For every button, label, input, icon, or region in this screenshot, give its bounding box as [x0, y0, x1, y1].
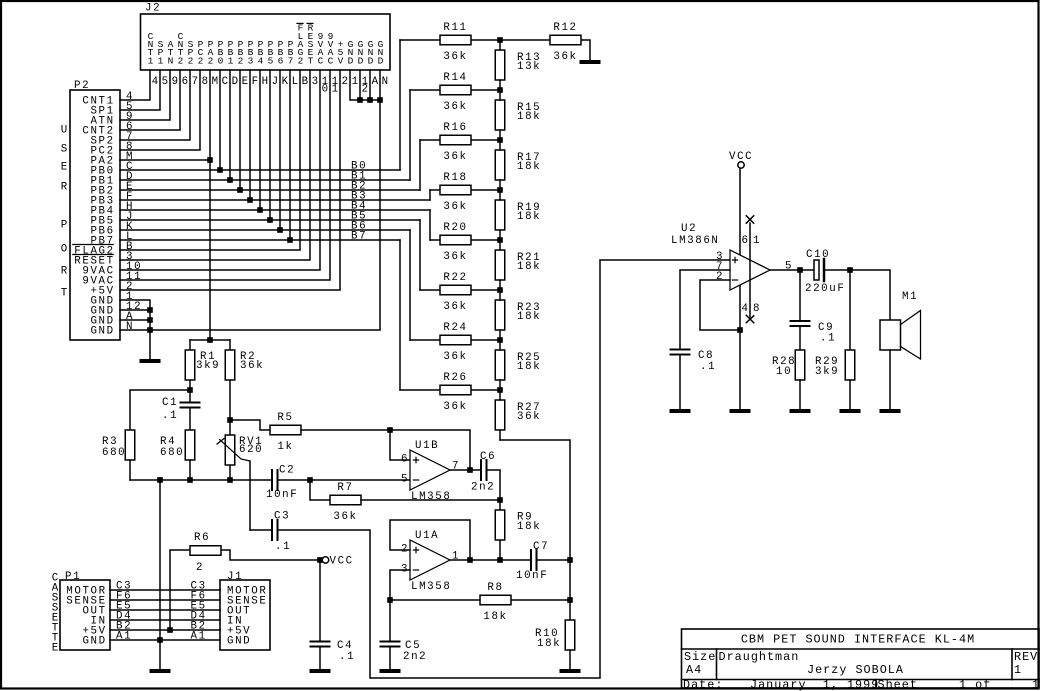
svg-text:36k: 36k [553, 51, 577, 63]
svg-text:GND: GND [227, 636, 251, 648]
svg-text:18k: 18k [517, 161, 541, 173]
svg-text:6: 6 [278, 55, 284, 66]
svg-text:E: E [52, 643, 60, 655]
junction dots ladder rail [497, 37, 503, 393]
svg-text:R: R [61, 182, 69, 194]
svg-text:36k: 36k [443, 251, 467, 263]
CASSETTE vertical label [52, 573, 60, 655]
junction dot (170,630) [167, 627, 173, 633]
resistor R13 13k [495, 50, 541, 80]
resistor R28 10 [772, 350, 805, 409]
svg-text:R20: R20 [443, 222, 467, 234]
svg-text:N: N [168, 55, 174, 66]
svg-text:CBM PET SOUND INTERFACE KL-4M: CBM PET SOUND INTERFACE KL-4M [741, 633, 975, 647]
resistor R5 1k [230, 412, 301, 453]
junction dot (160,640) [157, 637, 163, 643]
svg-text:1: 1 [332, 84, 340, 96]
svg-text:O: O [61, 244, 69, 256]
svg-text:M: M [212, 76, 220, 88]
svg-text:10: 10 [776, 366, 792, 378]
svg-text:A1: A1 [116, 631, 132, 643]
svg-text:1k: 1k [277, 441, 293, 453]
svg-text:0: 0 [218, 55, 224, 66]
wire U1A output row [450, 559, 570, 561]
svg-text:R16: R16 [443, 122, 467, 134]
svg-text:D: D [358, 55, 364, 66]
svg-text:REV: REV [1014, 650, 1038, 664]
svg-text:M1: M1 [902, 291, 918, 303]
svg-text:6: 6 [742, 235, 750, 247]
svg-text:3k9: 3k9 [815, 366, 839, 378]
svg-text:.1: .1 [162, 410, 178, 422]
svg-text:4: 4 [742, 303, 750, 315]
svg-text:36k: 36k [443, 301, 467, 313]
svg-text:3: 3 [248, 55, 254, 66]
svg-text:N: N [382, 76, 390, 88]
wire PA2 node to R1/R2 [190, 339, 230, 341]
svg-text:C3: C3 [274, 511, 290, 523]
junction dots J2/P2 [147, 97, 383, 333]
svg-text:R24: R24 [443, 322, 467, 334]
svg-text:36k: 36k [443, 201, 467, 213]
wire RV1 wiper down [249, 461, 251, 530]
wire analog ground row y=480 [130, 479, 410, 481]
wire R7 to R9 top [361, 499, 500, 501]
svg-text:S: S [61, 144, 69, 156]
connector J1 [220, 571, 270, 650]
power node VCC (OVCC) [317, 556, 354, 568]
svg-text:R14: R14 [443, 72, 467, 84]
junction dots y=480 row [157, 477, 313, 483]
svg-text:2: 2 [178, 55, 184, 66]
svg-text:Draughtman: Draughtman [719, 650, 800, 664]
resistor R10 18k [535, 620, 575, 669]
svg-text:R11: R11 [443, 22, 467, 34]
ground (M1) [880, 409, 901, 413]
svg-text:R5: R5 [277, 412, 293, 424]
wire DAC output to x=570 rail [500, 440, 570, 620]
svg-text:E: E [61, 162, 69, 174]
ground (R10) [560, 669, 581, 673]
resistor R6 2 [170, 532, 320, 630]
svg-text:7: 7 [288, 55, 294, 66]
capacitor C7 10nF [516, 541, 549, 582]
svg-text:2n2: 2n2 [403, 651, 427, 663]
resistor R16 36k [420, 122, 500, 163]
svg-text:10nF: 10nF [516, 570, 548, 582]
svg-text:6: 6 [401, 454, 409, 466]
resistor R19 18k [495, 200, 541, 230]
svg-text:B: B [302, 76, 310, 88]
ground (R29) [840, 409, 861, 413]
svg-text:C2: C2 [279, 465, 295, 477]
ground (P2 GND) [140, 359, 161, 363]
capacitor C3 .1 [250, 511, 291, 554]
wire U2 pin2 feedback [700, 280, 740, 330]
svg-text:18k: 18k [517, 361, 541, 373]
svg-text:5: 5 [401, 474, 409, 486]
svg-text:C10: C10 [806, 249, 830, 261]
svg-text:1: 1 [1014, 663, 1022, 677]
svg-text:2n2: 2n2 [471, 482, 495, 494]
svg-text:2: 2 [208, 55, 214, 66]
svg-text:9: 9 [172, 76, 180, 88]
capacitor C6 2n2 [471, 451, 496, 494]
potentiometer RV1 620 [217, 420, 263, 480]
svg-text:U2: U2 [681, 223, 697, 235]
resistor R7 36k [310, 480, 361, 523]
resistor R11 36k [400, 22, 500, 63]
wire R1 bottom to R3 [130, 390, 190, 430]
junction dot (740,330) [737, 327, 743, 333]
junction dots output [797, 267, 803, 273]
title block [682, 629, 1041, 691]
ground (C8) [670, 409, 691, 413]
svg-text:2: 2 [188, 55, 194, 66]
svg-text:10nF: 10nF [266, 489, 298, 501]
connector P2 (user port) [70, 80, 120, 340]
junction dot (230,420) [227, 417, 233, 423]
svg-text:D: D [378, 55, 384, 66]
svg-text:1: 1 [753, 235, 761, 247]
U2 pins 1/8 no-connect line with X marks [746, 216, 753, 323]
svg-text:C: C [328, 55, 334, 66]
svg-text:1: 1 [228, 55, 234, 66]
svg-text:18k: 18k [483, 611, 507, 623]
wire VCC to U2 pin6/4 [739, 168, 741, 330]
svg-text:18k: 18k [517, 211, 541, 223]
svg-text:R: R [61, 266, 69, 278]
svg-text:1: 1 [148, 55, 154, 66]
svg-text:.1: .1 [339, 651, 355, 663]
svg-text:2: 2 [342, 76, 350, 88]
svg-text:36k: 36k [333, 511, 357, 523]
svg-text:0: 0 [322, 84, 330, 96]
resistor R29 3k9 [815, 270, 855, 409]
svg-text:2: 2 [716, 271, 724, 283]
wire M1 to ground [889, 350, 891, 409]
svg-text:1: 1 [1032, 678, 1040, 691]
connector J2 [141, 3, 391, 71]
svg-text:8: 8 [753, 303, 761, 315]
svg-text:2: 2 [196, 562, 204, 574]
svg-text:18k: 18k [537, 638, 561, 650]
svg-text:Date:: Date: [683, 678, 723, 691]
junction dot (500,500) [497, 497, 503, 503]
resistor R17 18k [495, 150, 541, 180]
svg-text:N: N [126, 321, 134, 333]
svg-text:U1A: U1A [415, 530, 439, 542]
wires P1 to J1 [110, 590, 220, 640]
svg-text:K: K [282, 76, 290, 88]
svg-text:GND: GND [82, 636, 106, 648]
connector P1 [60, 571, 110, 650]
resistor R15 18k [495, 100, 541, 130]
J2 pin letters [152, 76, 390, 96]
svg-text:R6: R6 [194, 532, 210, 544]
svg-text:4: 4 [152, 76, 160, 88]
wire C3 to U2 input (signal loop) [278, 260, 731, 678]
wires J2 to P2 [120, 70, 430, 360]
svg-text:36k: 36k [443, 51, 467, 63]
svg-text:R8: R8 [487, 582, 503, 594]
ground (R12) [580, 60, 601, 64]
wire U2 pin4 to ground [739, 330, 741, 409]
svg-text:LM358: LM358 [411, 581, 451, 593]
wire ladder rail [499, 40, 501, 440]
svg-text:V: V [338, 55, 344, 66]
svg-text:J: J [272, 76, 280, 88]
resistor R25 18k [495, 350, 541, 380]
svg-text:E: E [242, 76, 250, 88]
wire U1A feedback box [390, 520, 470, 560]
svg-text:P2: P2 [74, 80, 90, 92]
wire R5 to U1B feedback [301, 430, 470, 470]
resistor R1 3k9 [185, 340, 220, 402]
wire U1A pin3 / R8 / C5 column [390, 570, 410, 640]
op-amp U2 LM386N [671, 223, 770, 315]
USER PORT vertical label [61, 125, 69, 300]
svg-text:P: P [61, 220, 69, 232]
svg-text:A4: A4 [686, 663, 702, 677]
svg-text:J1: J1 [227, 571, 243, 583]
resistor R9 18k [495, 500, 541, 560]
svg-text:36k: 36k [443, 151, 467, 163]
svg-text:F: F [252, 76, 260, 88]
svg-text:18k: 18k [517, 521, 541, 533]
svg-text:L: L [292, 76, 300, 88]
svg-text:2: 2 [362, 84, 370, 96]
svg-text:18k: 18k [517, 111, 541, 123]
svg-text:18k: 18k [517, 311, 541, 323]
resistor R2 36k [225, 340, 264, 420]
svg-text:.1: .1 [820, 333, 836, 345]
capacitor C9 .1 [791, 270, 837, 350]
svg-text:8: 8 [202, 76, 210, 88]
svg-text:LM386N: LM386N [671, 235, 719, 247]
power node VCC (U2) [729, 151, 753, 168]
svg-text:6: 6 [182, 76, 190, 88]
resistor R4 680 [160, 430, 195, 480]
wire cassette ground column [159, 480, 161, 669]
svg-text:2: 2 [238, 55, 244, 66]
svg-text:4: 4 [258, 55, 264, 66]
svg-text:U: U [61, 125, 69, 137]
svg-text:J2: J2 [145, 3, 161, 15]
wire U1B output [450, 469, 481, 471]
svg-text:A: A [372, 76, 380, 88]
svg-text:D: D [348, 55, 354, 66]
capacitor C8 .1 [671, 350, 717, 410]
wire U2 pin7 to C8 [680, 270, 730, 350]
svg-text:3: 3 [312, 76, 320, 88]
svg-text:R26: R26 [443, 372, 467, 384]
svg-text:5: 5 [268, 55, 274, 66]
wire C6 to R9 node [487, 470, 501, 500]
junction dot (210,340) [207, 337, 213, 343]
svg-text:36k: 36k [240, 360, 264, 372]
node labels B0-B7 [351, 161, 367, 243]
resistor R3 680 [102, 430, 135, 480]
resistor R20 36k [430, 222, 500, 263]
svg-text:.1: .1 [700, 361, 716, 373]
ground (U2 pin4) [730, 409, 751, 413]
svg-text:H: H [262, 76, 270, 88]
speaker M1 [880, 291, 921, 359]
resistor R23 18k [495, 300, 541, 330]
svg-text:C6: C6 [480, 451, 496, 463]
svg-text:36k: 36k [443, 351, 467, 363]
svg-text:220uF: 220uF [805, 283, 845, 295]
P2 pin numbers [126, 91, 142, 333]
op-amp U1A LM358 [401, 530, 460, 593]
resistor R27 36k [495, 400, 541, 430]
ground (C4) [310, 669, 331, 673]
resistor R24 36k [410, 322, 500, 363]
junction dot (190,390) [187, 387, 193, 393]
ground (cassette) [150, 669, 171, 673]
svg-text:2: 2 [198, 55, 204, 66]
svg-text:13k: 13k [517, 61, 541, 73]
op-amp U1B LM358 [401, 440, 460, 503]
junction dots U1A area [387, 557, 573, 603]
svg-text:January 1, 1999: January 1, 1999 [750, 678, 879, 691]
svg-text:GND: GND [90, 326, 114, 338]
svg-text:680: 680 [102, 447, 126, 459]
svg-text:620: 620 [239, 444, 263, 456]
svg-text:LM358: LM358 [411, 491, 451, 503]
ground (C5) [380, 669, 401, 673]
svg-text:D: D [232, 76, 240, 88]
junction dot (390,430) [387, 427, 393, 433]
resistor R18 36k [430, 172, 500, 213]
svg-text:5: 5 [785, 261, 793, 273]
capacitor C4 .1 [311, 560, 356, 669]
svg-text:.1: .1 [275, 541, 291, 553]
svg-text:C: C [222, 76, 230, 88]
svg-text:1: 1 [352, 76, 360, 88]
capacitor C1 .1 [162, 397, 200, 430]
ground (R28) [790, 409, 811, 413]
capacitor C2 10nF [266, 465, 298, 502]
svg-text:680: 680 [160, 447, 184, 459]
svg-text:B7: B7 [351, 231, 367, 243]
svg-text:R12: R12 [553, 22, 577, 34]
svg-text:7: 7 [192, 76, 200, 88]
svg-text:1: 1 [158, 55, 164, 66]
svg-text:3k9: 3k9 [196, 360, 220, 372]
resistor R26 36k [400, 372, 500, 413]
svg-text:T: T [61, 288, 69, 300]
capacitor C5 2n2 [381, 640, 428, 669]
svg-text:P1: P1 [65, 571, 81, 583]
svg-text:18k: 18k [517, 261, 541, 273]
svg-text:C7: C7 [533, 541, 549, 553]
svg-text:1 of: 1 of [959, 678, 991, 691]
resistor R21 18k [495, 250, 541, 280]
resistor R14 36k [410, 72, 500, 113]
svg-text:Size: Size [684, 650, 716, 664]
svg-text:C: C [318, 55, 324, 66]
resistor R22 36k [420, 272, 500, 313]
capacitor C10 220uF [805, 249, 845, 295]
wire risers B0-B7 to ladder [400, 40, 430, 390]
resistor R12 36k [500, 22, 590, 63]
svg-text:A1: A1 [191, 631, 207, 643]
wire C10 to speaker [825, 270, 890, 320]
svg-text:Sheet: Sheet [878, 678, 918, 691]
svg-text:36k: 36k [443, 401, 467, 413]
svg-text:T: T [308, 55, 314, 66]
svg-text:U1B: U1B [415, 440, 439, 452]
svg-text:Jerzy SOBOLA: Jerzy SOBOLA [807, 663, 904, 677]
svg-text:R18: R18 [443, 172, 467, 184]
svg-text:VCC: VCC [330, 556, 354, 568]
svg-text:R22: R22 [443, 272, 467, 284]
svg-text:D: D [368, 55, 374, 66]
svg-text:36k: 36k [443, 101, 467, 113]
svg-text:2: 2 [298, 55, 304, 66]
svg-text:36k: 36k [517, 411, 541, 423]
resistor R8 18k [390, 582, 570, 623]
junction dot (470,470) [467, 467, 473, 473]
svg-text:5: 5 [162, 76, 170, 88]
P1/J1 pin letters [116, 581, 207, 643]
wire U2 output pin5 [770, 269, 814, 271]
svg-text:R7: R7 [337, 482, 353, 494]
svg-text:C1: C1 [162, 397, 178, 409]
